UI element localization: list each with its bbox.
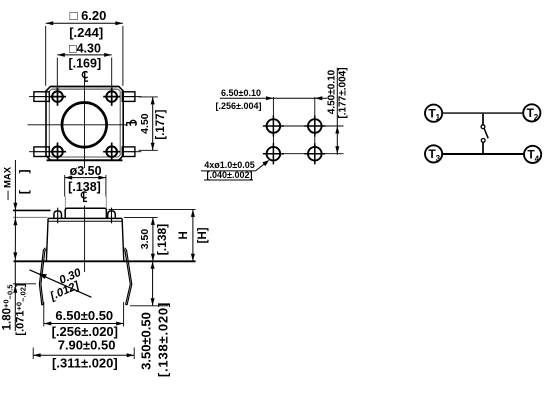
leader arrow to bottom-left hole bbox=[256, 158, 271, 171]
dimension diameter 3.50 label bbox=[70, 164, 102, 178]
dimension [.177] label bbox=[155, 109, 167, 139]
dimension [.138] body height label bbox=[155, 224, 169, 255]
top view: body bottom edge emphasis bbox=[47, 159, 123, 161]
dimension MAX extension lines bbox=[13, 210, 51, 217]
dimension 4.50 line with arrows bbox=[151, 97, 155, 150]
top view: vertical centerline bbox=[84, 82, 86, 169]
dimension [.071] label bbox=[14, 283, 27, 335]
dimension [.256] label bbox=[52, 324, 118, 339]
top view: switch body outline bbox=[46, 86, 123, 160]
svg-text:6.50±0.10: 6.50±0.10 bbox=[221, 88, 261, 98]
label [.012] bbox=[48, 279, 82, 303]
wire T1 to T2 bbox=[442, 112, 523, 114]
dimension 3.50 body height extension line bbox=[124, 216, 158, 218]
svg-text:[.169]: [.169] bbox=[68, 57, 101, 71]
side view: push button (plunger) bbox=[65, 208, 106, 218]
svg-text:[H]: [H] bbox=[197, 227, 209, 243]
terminal T1 bbox=[425, 105, 442, 123]
dimension MAX vertical line with outside arrows bbox=[13, 160, 17, 246]
dimension square 6.20 label bbox=[70, 8, 107, 23]
pcb pattern: mounting hole top-right bbox=[304, 116, 325, 137]
top view: terminal pin rivet top-left bbox=[49, 87, 66, 105]
side view: left bent terminal lead bbox=[39, 248, 46, 305]
dimension 4.50 label bbox=[139, 113, 151, 134]
side view: extension lines from button edges to dimension bbox=[65, 197, 106, 209]
terminal T4 bbox=[524, 146, 541, 164]
switch contact upper circle bbox=[481, 125, 485, 129]
switch blade bbox=[484, 129, 488, 139]
dimension MAX label bbox=[3, 166, 14, 200]
pcb pattern: vertical centerlines through holes bbox=[273, 97, 314, 165]
dimension square 4.30 label bbox=[69, 41, 101, 55]
dimension 6.50 lead span line with arrows bbox=[44, 322, 124, 326]
dimension [.311] label bbox=[52, 355, 118, 370]
dimension [.138] label (top view) bbox=[68, 180, 101, 194]
top view: right terminal leg lower bbox=[122, 147, 141, 157]
svg-text:3.50±0.50: 3.50±0.50 bbox=[139, 312, 154, 370]
dimension 1.80 label bbox=[1, 285, 14, 331]
svg-text:4.50: 4.50 bbox=[139, 113, 151, 134]
svg-text:[.040±.002]: [.040±.002] bbox=[207, 170, 253, 180]
dimension [.169] label bbox=[68, 57, 101, 71]
dimension 6.50 lead span label bbox=[55, 308, 113, 323]
dimension [.256 pcb] label bbox=[216, 101, 262, 111]
svg-text:□ 6.20: □ 6.20 bbox=[70, 8, 107, 23]
top view: terminal pin rivet bottom-right bbox=[103, 143, 120, 161]
svg-text:[.177±.004]: [.177±.004] bbox=[338, 67, 349, 118]
dimension 4.30 line with arrows bbox=[57, 53, 111, 86]
side view: seating plane line bbox=[14, 260, 196, 262]
dimension H line with arrows bbox=[191, 209, 195, 261]
svg-text:6.50±0.50: 6.50±0.50 bbox=[55, 308, 113, 323]
side view: right mounting ear bbox=[108, 208, 116, 224]
dimension [H] label bbox=[197, 227, 209, 243]
top view: left terminal leg lower bbox=[29, 147, 49, 157]
svg-text:[ ]: [ ] bbox=[17, 169, 31, 194]
svg-text:1: 1 bbox=[436, 113, 441, 122]
top view: left terminal leg upper bbox=[29, 92, 49, 102]
centerline symbol below [.138] bbox=[81, 192, 87, 202]
dimension H label bbox=[178, 231, 190, 239]
dimension [ ] blank inch label bbox=[17, 169, 31, 194]
svg-text:7.90±0.50: 7.90±0.50 bbox=[58, 337, 116, 352]
terminal T2 bbox=[523, 104, 540, 122]
svg-text:3.50: 3.50 bbox=[139, 229, 151, 250]
note [.040] label bbox=[207, 170, 253, 180]
pcb pattern: horizontal centerlines through holes bbox=[263, 126, 344, 154]
note 4x diameter 1.0 label bbox=[204, 160, 254, 170]
dimension lead tip extension line bbox=[130, 305, 168, 307]
svg-text:[.256±.004]: [.256±.004] bbox=[216, 101, 262, 111]
dimension 6.50 pcb line with outside arrows bbox=[220, 96, 327, 100]
dimension 7.90 extension lines bbox=[33, 348, 134, 360]
centerline symbol below [.169] bbox=[82, 72, 88, 82]
pcb pattern: mounting hole bottom-right bbox=[304, 143, 325, 164]
svg-text:4.50±0.10: 4.50±0.10 bbox=[327, 69, 338, 114]
dimension diameter 3.50 line with arrows bbox=[65, 175, 106, 197]
dimension 4.50 pcb label bbox=[327, 69, 338, 114]
dimension 1.80 vertical line with outside arrows bbox=[13, 246, 17, 331]
top view: horizontal centerline bbox=[28, 124, 127, 126]
svg-text:H: H bbox=[178, 231, 190, 239]
dimension 3.50 lead length label bbox=[139, 312, 154, 370]
dimension 6.50 pcb label bbox=[221, 88, 261, 98]
side view: left mounting ear bbox=[54, 208, 62, 224]
dimension 6.20 line with arrows bbox=[46, 21, 123, 86]
dimension 4.50 pcb line with arrows bbox=[335, 68, 339, 155]
dimension H extension line from button top bbox=[109, 208, 196, 210]
wire switch lower stub bbox=[482, 142, 484, 153]
side view: vertical centerline bbox=[84, 206, 86, 273]
dimension [.177 pcb] label bbox=[338, 67, 349, 118]
wire T3 to T4 bbox=[442, 153, 524, 155]
dimension [.138 lead length] label bbox=[156, 302, 171, 377]
svg-text:― MAX: ― MAX bbox=[3, 166, 14, 200]
side view: switch body bbox=[46, 218, 123, 261]
label 0.30 bbox=[58, 267, 84, 287]
svg-text:4: 4 bbox=[535, 154, 540, 163]
terminal T3 bbox=[425, 145, 442, 163]
dimension 6.50 lead span extension lines bbox=[44, 302, 124, 327]
svg-text:□4.30: □4.30 bbox=[69, 41, 101, 55]
switch contact lower circle bbox=[481, 139, 485, 143]
svg-text:[.138]: [.138] bbox=[155, 224, 169, 255]
pcb pattern: mounting hole bottom-left bbox=[263, 143, 284, 164]
dimension 1.80 knee extension line bbox=[13, 283, 36, 285]
svg-text:[.311±.020]: [.311±.020] bbox=[52, 355, 118, 370]
svg-text:[.177]: [.177] bbox=[155, 109, 167, 139]
pcb pattern: mounting hole top-left bbox=[263, 116, 284, 137]
dimension 7.90 line with arrows bbox=[33, 353, 134, 357]
top view: terminal pin rivet top-right bbox=[103, 87, 120, 105]
top view: push button circle bbox=[62, 103, 107, 148]
dimension [.244] label bbox=[69, 25, 103, 40]
top view: right terminal leg upper bbox=[122, 92, 141, 102]
top view: terminal pin rivet bottom-left bbox=[49, 143, 66, 161]
dimension 3.50 body height label bbox=[139, 229, 151, 250]
top view: centerline symbol (rotated) on horizontal centerline bbox=[126, 120, 136, 126]
dimension 7.90 label bbox=[58, 337, 116, 352]
dimension 3.50 body height line with arrows bbox=[151, 217, 155, 261]
side view: right bent terminal lead bbox=[123, 248, 132, 305]
note underline bbox=[201, 170, 256, 172]
svg-text:ø3.50: ø3.50 bbox=[70, 164, 102, 178]
dimension 4.50 extension lines bbox=[138, 97, 157, 150]
wire switch upper stub bbox=[482, 114, 484, 125]
top view: cover plate edge line (gray) bbox=[52, 87, 117, 89]
svg-text:2: 2 bbox=[534, 113, 539, 122]
svg-text:3: 3 bbox=[436, 154, 441, 163]
dimension 3.50 lead length line with arrows bbox=[151, 261, 155, 306]
svg-text:[.244]: [.244] bbox=[69, 25, 103, 40]
leader line for 0.30 material thickness bbox=[30, 270, 92, 298]
top view: inner cover square bbox=[49, 89, 120, 157]
note lower underline bbox=[204, 179, 253, 181]
svg-text:4xø1.0±0.05: 4xø1.0±0.05 bbox=[204, 160, 254, 170]
svg-text:[.138±.020]: [.138±.020] bbox=[156, 302, 171, 377]
